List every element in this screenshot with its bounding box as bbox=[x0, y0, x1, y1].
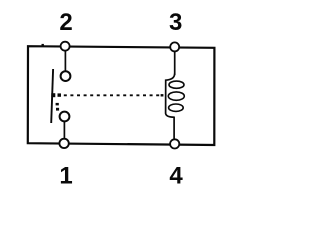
dashed link end tick at coil bbox=[161, 94, 164, 96]
scan speck near lower contact a bbox=[56, 103, 59, 106]
relay body outline bbox=[28, 46, 215, 145]
svg-text:3: 3 bbox=[169, 9, 182, 36]
coil L1 loop 1 bbox=[169, 81, 184, 88]
scan speck on top edge bbox=[42, 44, 44, 46]
actuation dashed link bbox=[64, 94, 162, 96]
terminal pin 3 bbox=[170, 42, 179, 51]
terminal pin 1 bbox=[59, 139, 68, 148]
wire pin2 to upper contact bbox=[64, 50, 66, 72]
terminal pin 2 bbox=[61, 42, 70, 51]
svg-text:4: 4 bbox=[169, 163, 183, 190]
wire pin3 to coil bbox=[174, 50, 176, 75]
coil L1 loop 3 bbox=[169, 104, 184, 111]
scan speck near lower contact b bbox=[56, 108, 59, 111]
switch fixed contact lower bbox=[60, 112, 70, 122]
armature tick at dashed link bbox=[51, 93, 55, 97]
svg-text:2: 2 bbox=[59, 9, 72, 36]
switch fixed contact upper bbox=[61, 71, 71, 81]
wire lower contact to pin1 bbox=[63, 121, 65, 140]
coil L1 loop 2 bbox=[168, 92, 184, 100]
wire coil to pin4 bbox=[173, 117, 175, 142]
switch armature bbox=[51, 69, 53, 123]
svg-text:1: 1 bbox=[59, 163, 72, 190]
terminal pin 4 bbox=[170, 139, 179, 148]
coil L1 left spine bbox=[166, 74, 175, 118]
dashed link lead dot bbox=[58, 93, 62, 96]
